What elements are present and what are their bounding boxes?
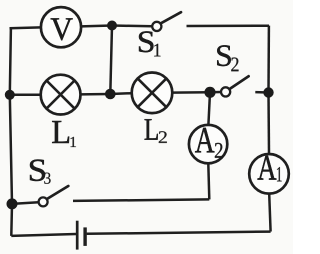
switch S2 pivot circle <box>221 87 230 96</box>
wire node B to node C vertical <box>110 26 112 94</box>
switch S2 blade <box>229 76 248 89</box>
wire A2 branch to switch S3 <box>73 199 209 201</box>
node E junction dot <box>263 87 273 97</box>
wire A2 down to corner <box>208 163 209 199</box>
battery long plate <box>76 221 79 250</box>
label L2 subscript 2 <box>159 131 167 143</box>
wire node B to switch S1 <box>112 24 152 27</box>
wire A1 to bottom-right corner <box>269 194 270 232</box>
label S3 subscript 3 <box>44 173 50 184</box>
node D junction dot <box>204 87 215 98</box>
label L2 letter L <box>145 119 158 139</box>
label S2 letter S <box>217 45 231 66</box>
lamp L2 circle <box>132 73 173 114</box>
node B junction dot <box>107 21 117 31</box>
lamp L1 cross <box>47 81 75 109</box>
switch S3 blade <box>47 186 68 199</box>
wire lamp L1 to node C <box>81 93 111 96</box>
voltmeter V circle <box>41 7 81 47</box>
wire node D to switch S2 <box>210 91 221 94</box>
label A1 subscript 1 <box>277 167 282 181</box>
wire left rail <box>10 28 12 236</box>
wire S3 to node F <box>12 202 39 204</box>
wire top-left to voltmeter <box>10 26 42 29</box>
label S1 letter S <box>139 31 153 52</box>
node A junction dot <box>5 90 15 100</box>
label A1 letter A <box>258 156 277 180</box>
node F junction dot <box>7 198 18 209</box>
switch S1 pivot circle <box>152 22 161 31</box>
wire voltmeter to node B <box>81 24 112 27</box>
label S1 subscript 1 <box>154 44 160 57</box>
wire S1 to top-right corner <box>187 24 270 27</box>
wire right rail upper <box>267 26 270 93</box>
label L1 subscript 1 <box>71 137 76 147</box>
wire bottom right to battery <box>87 232 271 234</box>
node C junction dot <box>105 89 116 100</box>
label A2 letter A <box>195 128 214 152</box>
label S2 subscript 2 <box>231 58 238 72</box>
lamp L1 circle <box>41 75 81 115</box>
wire node A to lamp L1 <box>10 93 41 96</box>
label L1 letter L <box>52 121 69 143</box>
wire right rail to ammeter A1 <box>267 93 270 155</box>
label V (voltmeter) <box>51 18 73 40</box>
wire battery to bottom-left corner <box>11 234 76 236</box>
switch S3 pivot circle <box>39 197 48 206</box>
ammeter A2 circle <box>189 125 227 163</box>
ammeter A1 circle <box>249 154 289 194</box>
label A2 subscript 2 <box>215 143 223 158</box>
wire node C to lamp L2 <box>110 92 131 95</box>
lamp L2 cross <box>138 78 167 107</box>
battery short plate <box>83 227 86 246</box>
wire node D down to ammeter A2 <box>208 92 210 125</box>
wire S2 to node E <box>255 91 268 94</box>
wire lamp L2 to node D <box>172 91 210 94</box>
switch S1 blade <box>161 12 181 23</box>
label S3 letter S <box>30 160 45 182</box>
